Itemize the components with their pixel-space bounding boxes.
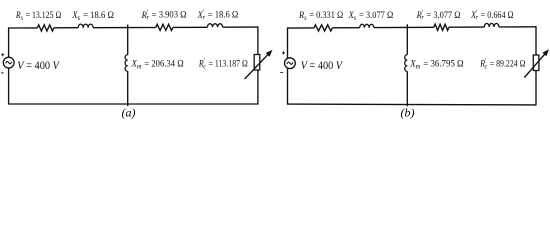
- wire: circuit (a) top-left segment: [9, 27, 38, 29]
- wire: X'r to top-right corner (b): [499, 26, 536, 28]
- svg-text:Rs = 0.331 Ω: Rs = 0.331 Ω: [298, 11, 343, 22]
- inductor X'r (a): [207, 24, 222, 28]
- svg-text:Xs = 18.6 Ω: Xs = 18.6 Ω: [71, 11, 114, 22]
- node: bottom junction stub (a): [127, 104, 129, 106]
- resistor R'r (b): [434, 24, 449, 30]
- svg-text:(b): (b): [401, 106, 415, 120]
- svg-text:V = 400 V: V = 400 V: [17, 60, 60, 72]
- source V (a): plus sign: [1, 53, 4, 56]
- wire: circuit (b) top-left segment: [288, 27, 314, 29]
- variable resistor R'c (a): box: [254, 55, 260, 71]
- wire: bottom (b): [288, 103, 537, 106]
- svg-text:X′r = 0.664 Ω: X′r = 0.664 Ω: [470, 9, 514, 22]
- inductor Xs (a): [78, 24, 93, 28]
- resistor Rs (b): [314, 25, 332, 31]
- inductor Xm (a): [125, 55, 128, 71]
- variable resistor R'c (b): box: [533, 55, 539, 71]
- node: bottom junction stub (b): [406, 105, 408, 107]
- wire: Xs to junction (a): [93, 27, 156, 29]
- wire: right side above load (a): [257, 26, 259, 54]
- resistor Rs (a): [37, 25, 54, 31]
- wire: between Rs and Xs (a): [54, 27, 78, 29]
- source V (b): sine: [287, 62, 293, 64]
- inductor Xs (b): [360, 24, 374, 27]
- svg-text:R′c = 113.187 Ω: R′c = 113.187 Ω: [198, 57, 248, 70]
- source V (a): minus sign: [1, 72, 4, 74]
- svg-text:R′r = 3.903 Ω: R′r = 3.903 Ω: [141, 9, 187, 22]
- svg-text:Rs = 13.125 Ω: Rs = 13.125 Ω: [15, 11, 61, 22]
- variable resistor R'c (a): arrow: [245, 52, 271, 79]
- wire: X'r to top-right corner (a): [223, 26, 258, 28]
- svg-text:(a): (a): [122, 106, 136, 120]
- inductor X'r (b): [484, 23, 499, 27]
- source V (b): minus sign: [280, 71, 283, 73]
- source V (b): circle: [285, 58, 296, 69]
- wire: left side above source (a): [8, 27, 10, 57]
- inductor Xm (b): [405, 55, 408, 72]
- wire: middle branch lower (b): [406, 71, 408, 104]
- svg-text:R′r = 3.077 Ω: R′r = 3.077 Ω: [416, 9, 461, 22]
- node: top junction stub (a): [127, 25, 129, 28]
- svg-text:Xm = 206.34 Ω: Xm = 206.34 Ω: [131, 60, 184, 71]
- wire: between Rs and Xs (b): [332, 27, 359, 29]
- wire: R'r to X'r (b): [449, 26, 485, 28]
- source V (b): plus sign: [282, 51, 285, 54]
- node: top junction stub (b): [406, 24, 408, 27]
- wire: R'r to X'r (a): [173, 26, 208, 28]
- wire: right side below load (a): [257, 70, 259, 105]
- wire: right side below load (b): [535, 71, 537, 106]
- variable resistor R'c (b): arrow: [524, 52, 546, 78]
- svg-text:V = 400 V: V = 400 V: [301, 60, 343, 72]
- wire: left side below source (a): [8, 68, 10, 105]
- svg-text:X′r = 18.6 Ω: X′r = 18.6 Ω: [197, 9, 239, 22]
- wire: middle branch upper (b): [406, 27, 408, 54]
- source V (a): sine: [6, 61, 12, 63]
- resistor R'r (a): [156, 24, 173, 30]
- wire: middle branch upper (a): [127, 28, 129, 55]
- svg-text:Xs = 3.077 Ω: Xs = 3.077 Ω: [348, 11, 394, 22]
- wire: middle branch lower (a): [127, 71, 129, 104]
- svg-text:R′c = 89.224 Ω: R′c = 89.224 Ω: [479, 58, 525, 71]
- svg-text:Xm = 36.795 Ω: Xm = 36.795 Ω: [409, 60, 463, 71]
- wire: Xs to junction (b): [374, 26, 434, 28]
- wire: bottom (a): [9, 103, 258, 105]
- wire: left side above source (b): [287, 27, 289, 57]
- wire: right side above load (b): [535, 26, 537, 55]
- source V (a): circle: [3, 57, 14, 68]
- wire: left side below source (b): [287, 69, 289, 105]
